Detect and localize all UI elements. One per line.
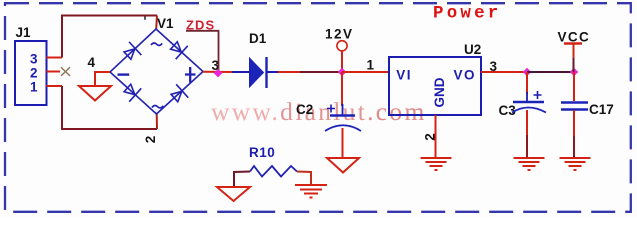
- svg-text:VCC: VCC: [558, 29, 591, 44]
- no-connect X on J1.2: [61, 67, 70, 76]
- power symbol VCC: [558, 29, 591, 44]
- bridge rectifier V1: [88, 16, 220, 143]
- ground (triangle) at C2: [327, 158, 359, 173]
- svg-text:GND: GND: [432, 77, 447, 107]
- wire V1 pin4 to ground: [95, 72, 110, 86]
- junction node C3 tap: [523, 68, 531, 76]
- wire 12V node down to C2: [341, 72, 343, 106]
- diode bottom-right: [168, 84, 188, 104]
- ground (triangle) at V1 pin4: [79, 86, 111, 101]
- diode top-left: [121, 42, 141, 62]
- diode D1: [232, 31, 278, 88]
- wire VCC node down to C17: [573, 72, 575, 101]
- wire 12V node to U2 VI: [342, 71, 389, 73]
- svg-text:VO: VO: [454, 68, 477, 83]
- wire D1 to 12V node: [278, 71, 300, 73]
- junction node 12V: [338, 68, 346, 76]
- svg-text:4: 4: [88, 55, 96, 70]
- junction node ZDS: [214, 69, 222, 77]
- svg-text:C2: C2: [296, 102, 313, 117]
- wire J1.1 to V1 pin2 (bottom loop): [62, 86, 157, 129]
- wire C2 to ground: [342, 128, 344, 158]
- svg-text:12V: 12V: [325, 27, 354, 42]
- wire U2 VO to C3 node: [481, 71, 527, 73]
- svg-text:3: 3: [30, 52, 38, 67]
- ~ mark top: [151, 43, 162, 45]
- port 12V: [325, 27, 354, 51]
- pin J1.3 stub: [47, 57, 63, 59]
- junction node VCC: [570, 68, 578, 76]
- wire ZDS net label: [186, 31, 219, 50]
- svg-text:D1: D1: [249, 31, 267, 46]
- wire C3 to ground: [526, 110, 528, 135]
- ground (triangle) at R10 left: [217, 187, 250, 201]
- wire VCC bar down to node: [573, 44, 575, 58]
- ground (earth) at C17: [560, 158, 591, 170]
- svg-text:1: 1: [367, 57, 375, 72]
- pin1 tick: [144, 17, 146, 20]
- svg-text:R10: R10: [249, 145, 275, 160]
- wire C3 node to VCC node: [527, 71, 574, 73]
- capacitor C2 (polarized): [296, 102, 361, 131]
- svg-text:U2: U2: [464, 42, 481, 57]
- svg-text:C17: C17: [589, 102, 614, 117]
- capacitor C17: [561, 102, 614, 117]
- wire J1.3 to V1 pin1 (top loop): [62, 16, 157, 58]
- svg-text:www.dianlut.com: www.dianlut.com: [211, 97, 427, 126]
- minus mark: [118, 73, 130, 75]
- svg-text:C3: C3: [499, 103, 517, 118]
- ~ mark bottom: [152, 105, 163, 107]
- regulator U2: [389, 42, 481, 115]
- svg-text:2: 2: [143, 136, 158, 144]
- wire R10 left lead: [234, 172, 250, 188]
- resistor R10: [249, 145, 297, 177]
- diamond body: [110, 29, 203, 114]
- ground (earth) at C3: [514, 158, 545, 170]
- svg-text:J1: J1: [16, 25, 32, 40]
- wire 12V port down: [341, 51, 343, 72]
- wire C3 node down: [526, 72, 528, 94]
- capacitor C3 (polarized): [499, 91, 547, 118]
- wire U2 pin2 to ground: [435, 115, 437, 158]
- svg-text:2: 2: [30, 66, 38, 81]
- pin J1.1 stub: [47, 85, 63, 87]
- pin J1.2 stub: [47, 71, 61, 73]
- svg-text:1: 1: [30, 80, 38, 95]
- ground (earth) at R10 right: [295, 185, 327, 198]
- connector J1: [15, 25, 47, 105]
- wire C17 to ground: [573, 110, 575, 136]
- svg-text:V1: V1: [157, 16, 174, 31]
- diode bottom-left: [121, 81, 141, 101]
- wire V1 pin3 to D1: [203, 71, 233, 73]
- ground (earth) at U2 pin2: [421, 158, 452, 170]
- plus mark: [185, 67, 196, 83]
- diode top-right: [168, 39, 188, 59]
- wire R10 right lead: [297, 172, 311, 186]
- svg-text:VI: VI: [396, 68, 412, 83]
- svg-text:Power: Power: [433, 4, 502, 24]
